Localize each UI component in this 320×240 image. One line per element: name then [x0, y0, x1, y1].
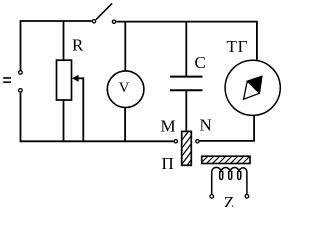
wire top rail left segment	[21, 21, 92, 71]
wire wiper	[78, 78, 84, 141]
wire rheostat top	[63, 21, 65, 61]
inductor coil L	[212, 167, 247, 194]
wire capacitor top	[185, 22, 187, 76]
wire rheostat bottom	[63, 100, 65, 142]
wire TG bottom to N	[200, 115, 255, 141]
coil terminal left	[210, 195, 214, 199]
battery B1 terminal bottom	[19, 89, 23, 93]
wire top rail right segment	[116, 22, 257, 61]
voltmeter V body	[107, 71, 144, 108]
tachogenerator TG inner black triangle	[247, 76, 262, 93]
switch S1 contact right	[112, 20, 115, 23]
svg-text:М: М	[161, 117, 176, 136]
battery B1 terminal top	[19, 71, 23, 75]
svg-text:Z: Z	[224, 193, 234, 207]
wire voltmeter bottom	[124, 107, 126, 141]
wire left rail lower	[21, 93, 175, 142]
switch S1 blade	[96, 3, 112, 19]
battery B1 symbol =	[3, 77, 11, 83]
switch S1 contact left	[92, 20, 95, 23]
node M terminal	[174, 140, 177, 143]
tachogenerator TG inner quad outline	[244, 76, 262, 99]
electromagnet core hatched bar	[200, 156, 256, 164]
coil terminal right	[245, 195, 249, 199]
svg-text:C: C	[195, 53, 206, 72]
capacitor C bottom plate	[170, 89, 203, 91]
piezo element P hatched plate	[181, 126, 193, 182]
resistor R rheostat body	[57, 60, 72, 100]
svg-text:V: V	[119, 80, 130, 96]
wire capacitor bottom	[185, 91, 187, 132]
svg-text:R: R	[72, 36, 84, 55]
wire voltmeter top	[124, 22, 126, 71]
svg-text:ТГ: ТГ	[227, 37, 249, 56]
node N terminal	[196, 140, 199, 143]
svg-text:П: П	[162, 154, 174, 173]
tachogenerator TG body	[225, 60, 280, 115]
capacitor C top plate	[170, 76, 203, 78]
svg-text:N: N	[200, 116, 212, 135]
resistor R wiper arrow	[72, 75, 79, 82]
